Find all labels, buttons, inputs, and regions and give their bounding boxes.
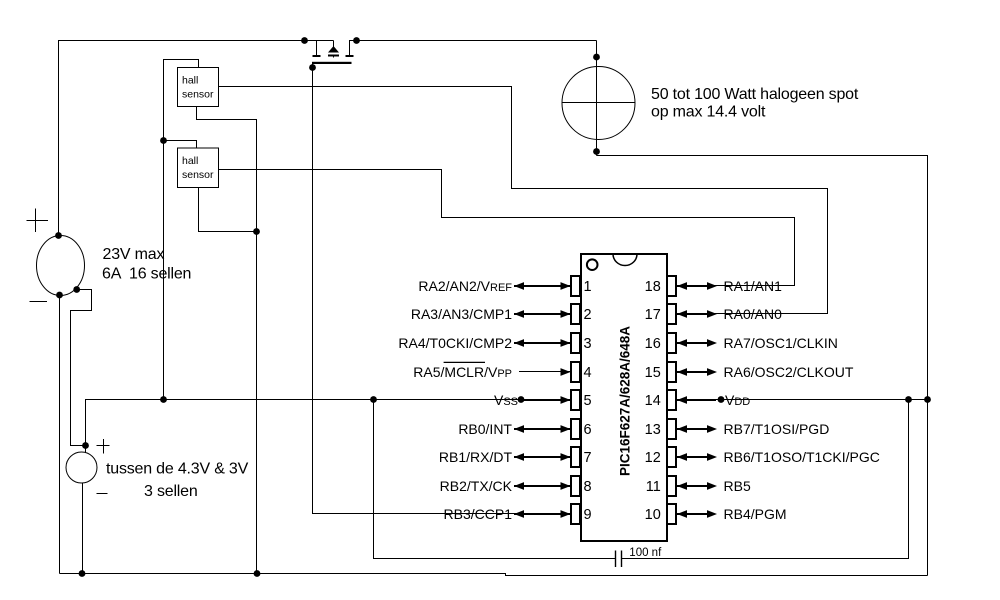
wire zigzag battery minus to small battery plus <box>71 290 92 446</box>
wire Vss rail <box>86 400 572 446</box>
svg-text:50 tot 100 Watt halogeen spot: 50 tot 100 Watt halogeen spot <box>651 86 859 103</box>
wire lamp return to right rail <box>597 156 928 576</box>
svg-text:14: 14 <box>645 393 661 409</box>
IC U1 PIC16F627A body <box>581 254 667 541</box>
pin 14 box and arrow <box>667 390 676 410</box>
node small battery - bottom rail <box>79 570 86 577</box>
svg-text:3: 3 <box>584 336 592 352</box>
node MOSFET source junction <box>353 37 360 44</box>
svg-text:RA4/T0CKI/CMP2: RA4/T0CKI/CMP2 <box>398 335 512 351</box>
svg-text:RA5/MCLR/VPP: RA5/MCLR/VPP <box>413 364 512 380</box>
battery B1 23V <box>27 209 85 302</box>
wire top rail from battery + to MOSFET <box>59 41 334 236</box>
wire Vdd rail <box>676 399 928 401</box>
wire hall2 bottom <box>199 188 257 232</box>
svg-text:23V max: 23V max <box>103 246 165 263</box>
pin 6 box and arrow <box>571 419 580 439</box>
node Vdd lamp junction <box>924 396 931 403</box>
svg-text:5: 5 <box>584 393 592 409</box>
node Vdd label dot <box>718 396 725 403</box>
node hall bottoms junction <box>253 228 260 235</box>
svg-text:3 sellen: 3 sellen <box>144 483 198 500</box>
battery B2 small 3 cells <box>66 439 110 574</box>
wire hall supply vertical <box>164 60 199 400</box>
svg-text:RA7/OSC1/CLKIN: RA7/OSC1/CLKIN <box>724 335 838 351</box>
svg-text:tussen de 4.3V & 3V: tussen de 4.3V & 3V <box>106 461 249 478</box>
pin 15 box and arrow <box>667 362 676 382</box>
svg-text:RB3/CCP1: RB3/CCP1 <box>444 506 513 522</box>
svg-text:hall: hall <box>182 75 198 87</box>
node Vss label dot <box>518 396 525 403</box>
svg-text:RB0/INT: RB0/INT <box>458 421 512 437</box>
pins will be inserted here <box>398 276 879 524</box>
svg-text:op max 14.4 volt: op max 14.4 volt <box>651 104 766 121</box>
svg-text:10: 10 <box>645 507 661 523</box>
svg-text:2: 2 <box>584 307 592 323</box>
svg-text:16: 16 <box>645 336 661 352</box>
node A MOSFET drain junction <box>301 37 308 44</box>
svg-text:RA1/AN1: RA1/AN1 <box>724 278 783 294</box>
pin 16 box and arrow <box>667 333 676 353</box>
svg-text:11: 11 <box>646 479 661 495</box>
svg-text:4: 4 <box>584 365 592 381</box>
wire hall2 out to RA1 pin18 <box>219 170 795 286</box>
svg-text:9: 9 <box>584 507 592 523</box>
node hall branch <box>160 137 167 144</box>
pin 5 box and arrow <box>571 390 580 410</box>
svg-text:15: 15 <box>645 365 661 381</box>
svg-text:12: 12 <box>645 450 661 466</box>
wire gate down to RB3 <box>313 64 572 514</box>
node battery - <box>56 292 63 299</box>
svg-text:RB6/T1OSO/T1CKI/PGC: RB6/T1OSO/T1CKI/PGC <box>724 449 880 465</box>
svg-text:RB7/T1OSI/PGD: RB7/T1OSI/PGD <box>724 421 830 437</box>
pin 8 box and arrow <box>571 476 580 496</box>
pin 9 box and arrow <box>571 504 580 524</box>
capacitor C1 100nf <box>374 400 909 568</box>
svg-text:7: 7 <box>584 450 592 466</box>
svg-text:sensor: sensor <box>182 169 214 181</box>
pin 3 box and arrow <box>571 333 580 353</box>
svg-text:1: 1 <box>584 279 592 295</box>
node gate junction <box>309 64 316 71</box>
pin 12 box and arrow <box>667 447 676 467</box>
node battery + <box>55 232 62 239</box>
wire hall1 bottom <box>197 107 257 574</box>
wire branch to hall sensor 2 <box>164 141 197 149</box>
MCLR overline <box>444 361 485 363</box>
pin 10 box and arrow <box>667 504 676 524</box>
hall sensor 2 <box>178 148 219 188</box>
wire bottom rail <box>60 574 928 576</box>
svg-text:RA3/AN3/CMP1: RA3/AN3/CMP1 <box>411 306 512 322</box>
svg-text:RB5: RB5 <box>724 478 751 494</box>
node Vdd cap junction <box>905 396 912 403</box>
wire hall1 out to RA0 pin17 <box>219 87 828 314</box>
pin 17 box and arrow <box>667 304 676 324</box>
svg-text:6: 6 <box>584 422 592 438</box>
svg-text:RB4/PGM: RB4/PGM <box>724 506 787 522</box>
svg-text:PIC16F627A/628A/648A: PIC16F627A/628A/648A <box>616 326 632 476</box>
pin 11 box and arrow <box>667 476 676 496</box>
svg-text:RA0/AN0: RA0/AN0 <box>724 306 783 322</box>
svg-text:6A: 6A <box>102 266 122 283</box>
hall sensor 1 <box>178 68 219 107</box>
svg-text:hall: hall <box>182 155 198 167</box>
node small battery + <box>82 442 89 449</box>
svg-text:16 sellen: 16 sellen <box>129 266 191 283</box>
svg-text:8: 8 <box>584 479 592 495</box>
pin 2 box and arrow <box>571 304 580 324</box>
node battery lower right <box>73 286 80 293</box>
svg-text:RB2/TX/CK: RB2/TX/CK <box>440 478 513 494</box>
pin 7 box and arrow <box>571 447 580 467</box>
svg-text:RB1/RX/DT: RB1/RX/DT <box>439 449 513 465</box>
pin 13 box and arrow <box>667 419 676 439</box>
transistor Q1 power MOSFET with body diode <box>312 41 597 65</box>
wire battery minus down to bottom rail <box>59 295 61 574</box>
node Vss hall junction <box>160 396 167 403</box>
svg-text:RA6/OSC2/CLKOUT: RA6/OSC2/CLKOUT <box>724 364 854 380</box>
svg-text:sensor: sensor <box>182 89 214 101</box>
svg-text:13: 13 <box>645 422 661 438</box>
node lamp top <box>593 54 600 61</box>
lamp L1 halogen spot <box>562 41 635 156</box>
node Vss cap junction <box>370 396 377 403</box>
svg-text:17: 17 <box>645 307 661 323</box>
pin 4 box and arrow <box>571 362 580 382</box>
node lamp bottom <box>593 148 600 155</box>
pin 18 box and arrow <box>667 276 676 296</box>
pin 1 box and arrow <box>571 276 580 296</box>
svg-text:100 nf: 100 nf <box>629 547 662 559</box>
node bottom rail junction <box>254 570 261 577</box>
svg-text:18: 18 <box>645 279 661 295</box>
